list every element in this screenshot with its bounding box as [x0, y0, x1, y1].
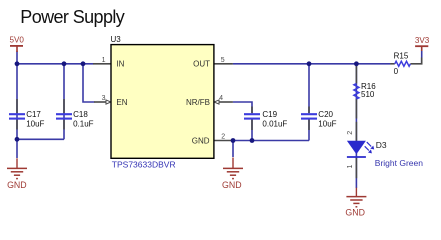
- label R15: [394, 52, 409, 61]
- value Bright Green: [375, 158, 423, 168]
- wire mid GND drop: [232, 141, 234, 158]
- capacitor C18: [56, 114, 72, 118]
- label D3: [376, 140, 387, 150]
- ground mid GND: [222, 158, 243, 190]
- wire C20 bottom: [308, 120, 310, 141]
- svg-text:GND: GND: [345, 208, 365, 218]
- pin number 2: [221, 134, 225, 141]
- wire EN branch: [83, 64, 95, 102]
- svg-text:4: 4: [219, 95, 223, 102]
- value 10uF: [26, 119, 44, 128]
- wire mid GND rail: [233, 140, 309, 142]
- pin C19 leads: [251, 107, 253, 131]
- pin number 4: [219, 95, 223, 102]
- pin name IN: [116, 60, 124, 69]
- svg-text:GND: GND: [192, 136, 210, 145]
- svg-text:C17: C17: [26, 110, 41, 119]
- svg-text:510: 510: [361, 90, 375, 99]
- capacitor C19: [244, 114, 260, 118]
- pin U3.4 NR/FB lead: [214, 100, 233, 104]
- svg-text:Bright Green: Bright Green: [375, 158, 423, 168]
- wire C19 bottom: [251, 120, 253, 141]
- svg-text:GND: GND: [7, 180, 27, 190]
- wire C17 column: [16, 51, 18, 140]
- pin U3.2 GND lead: [214, 140, 233, 142]
- wire left GND drop: [16, 139, 18, 158]
- svg-text:D3: D3: [376, 140, 387, 150]
- svg-text:C18: C18: [73, 110, 88, 119]
- pin number 3: [102, 95, 106, 102]
- value 0: [394, 67, 399, 76]
- wire bottom left GND rail: [17, 138, 64, 140]
- pin number 1: [102, 57, 106, 64]
- svg-text:U3: U3: [111, 35, 122, 44]
- junction at C18 top: [62, 61, 67, 66]
- ground left GND: [7, 158, 27, 190]
- svg-text:R15: R15: [394, 52, 409, 61]
- svg-text:1: 1: [347, 165, 354, 169]
- svg-text:Power Supply: Power Supply: [20, 7, 124, 27]
- pin number 1 (D3 cathode): [347, 165, 354, 169]
- wire R15 to 3V3: [421, 51, 423, 64]
- svg-text:IN: IN: [116, 60, 124, 69]
- svg-text:2: 2: [221, 134, 225, 141]
- svg-text:0.01uF: 0.01uF: [262, 119, 287, 128]
- pin name GND: [192, 136, 210, 145]
- pin number 2 (D3 anode): [347, 131, 354, 135]
- svg-text:OUT: OUT: [193, 60, 210, 69]
- svg-text:10uF: 10uF: [26, 119, 44, 128]
- wire C18 column: [63, 64, 65, 140]
- label C20: [318, 110, 333, 119]
- pin R15 leads: [390, 58, 422, 64]
- svg-text:GND: GND: [222, 180, 242, 190]
- svg-text:TPS73633DBVR: TPS73633DBVR: [112, 159, 176, 169]
- LED D3: [347, 141, 374, 157]
- svg-text:5: 5: [221, 57, 225, 64]
- junction at EN branch: [81, 61, 86, 66]
- junction at R16 top: [354, 61, 359, 66]
- pin R16 leads: [355, 64, 357, 119]
- wire R16 LED column: [355, 64, 357, 188]
- resistor R16: [354, 84, 359, 100]
- svg-text:C19: C19: [262, 110, 277, 119]
- svg-text:NR/FB: NR/FB: [186, 98, 210, 107]
- pin C20 leads: [308, 107, 310, 131]
- pin name OUT: [193, 60, 210, 69]
- junction at U3 GND / drop: [231, 138, 236, 143]
- svg-text:3: 3: [102, 95, 106, 102]
- value 510: [361, 90, 375, 99]
- svg-text:0: 0: [394, 67, 399, 76]
- junction at C20 top: [307, 61, 312, 66]
- resistor R15: [395, 61, 411, 66]
- pin U3.3 EN lead: [94, 100, 111, 104]
- label U3 value TPS73633DBVR: [112, 159, 176, 169]
- junction at 5V0 rail / C17: [15, 61, 20, 66]
- label R16: [361, 82, 376, 91]
- label C19: [262, 110, 277, 119]
- wire NR/FB to C19: [233, 102, 252, 113]
- pin number 5: [221, 57, 225, 64]
- svg-text:3V3: 3V3: [415, 36, 430, 45]
- pin C17 leads: [16, 99, 18, 130]
- junction at C19 bottom: [250, 138, 255, 143]
- title Power Supply: [20, 7, 124, 27]
- value 0.01uF: [262, 119, 287, 128]
- pin name EN: [116, 98, 127, 107]
- value 0.1uF: [73, 119, 94, 128]
- svg-text:5V0: 5V0: [10, 36, 25, 45]
- svg-text:2: 2: [347, 131, 354, 135]
- supply symbol 5V0: [10, 36, 25, 52]
- svg-text:10uF: 10uF: [318, 119, 336, 128]
- pin D3 leads: [355, 122, 357, 178]
- ground D3 GND: [345, 188, 366, 218]
- pin C18 leads: [63, 99, 65, 130]
- wire C20 top: [308, 64, 310, 113]
- op-amp U3 body TPS73633DBVR: [111, 45, 214, 159]
- svg-text:1: 1: [102, 57, 106, 64]
- capacitor C17: [9, 114, 25, 118]
- junction at C17 bottom / GND: [15, 137, 20, 142]
- svg-text:C20: C20: [318, 110, 333, 119]
- supply symbol 3V3: [415, 36, 430, 51]
- value 10uF: [318, 119, 336, 128]
- pin U3.1 IN lead: [93, 63, 112, 65]
- label U3: [111, 35, 122, 44]
- svg-text:0.1uF: 0.1uF: [73, 119, 94, 128]
- wire OUT rail 3V3 net: [233, 63, 391, 65]
- label C18: [73, 110, 88, 119]
- pin U3.5 OUT lead: [214, 63, 233, 65]
- capacitor C20: [301, 114, 317, 118]
- wire top rail 5V0 net: [17, 63, 93, 65]
- svg-text:EN: EN: [116, 98, 127, 107]
- label C17: [26, 110, 41, 119]
- pin name NR/FB: [186, 98, 210, 107]
